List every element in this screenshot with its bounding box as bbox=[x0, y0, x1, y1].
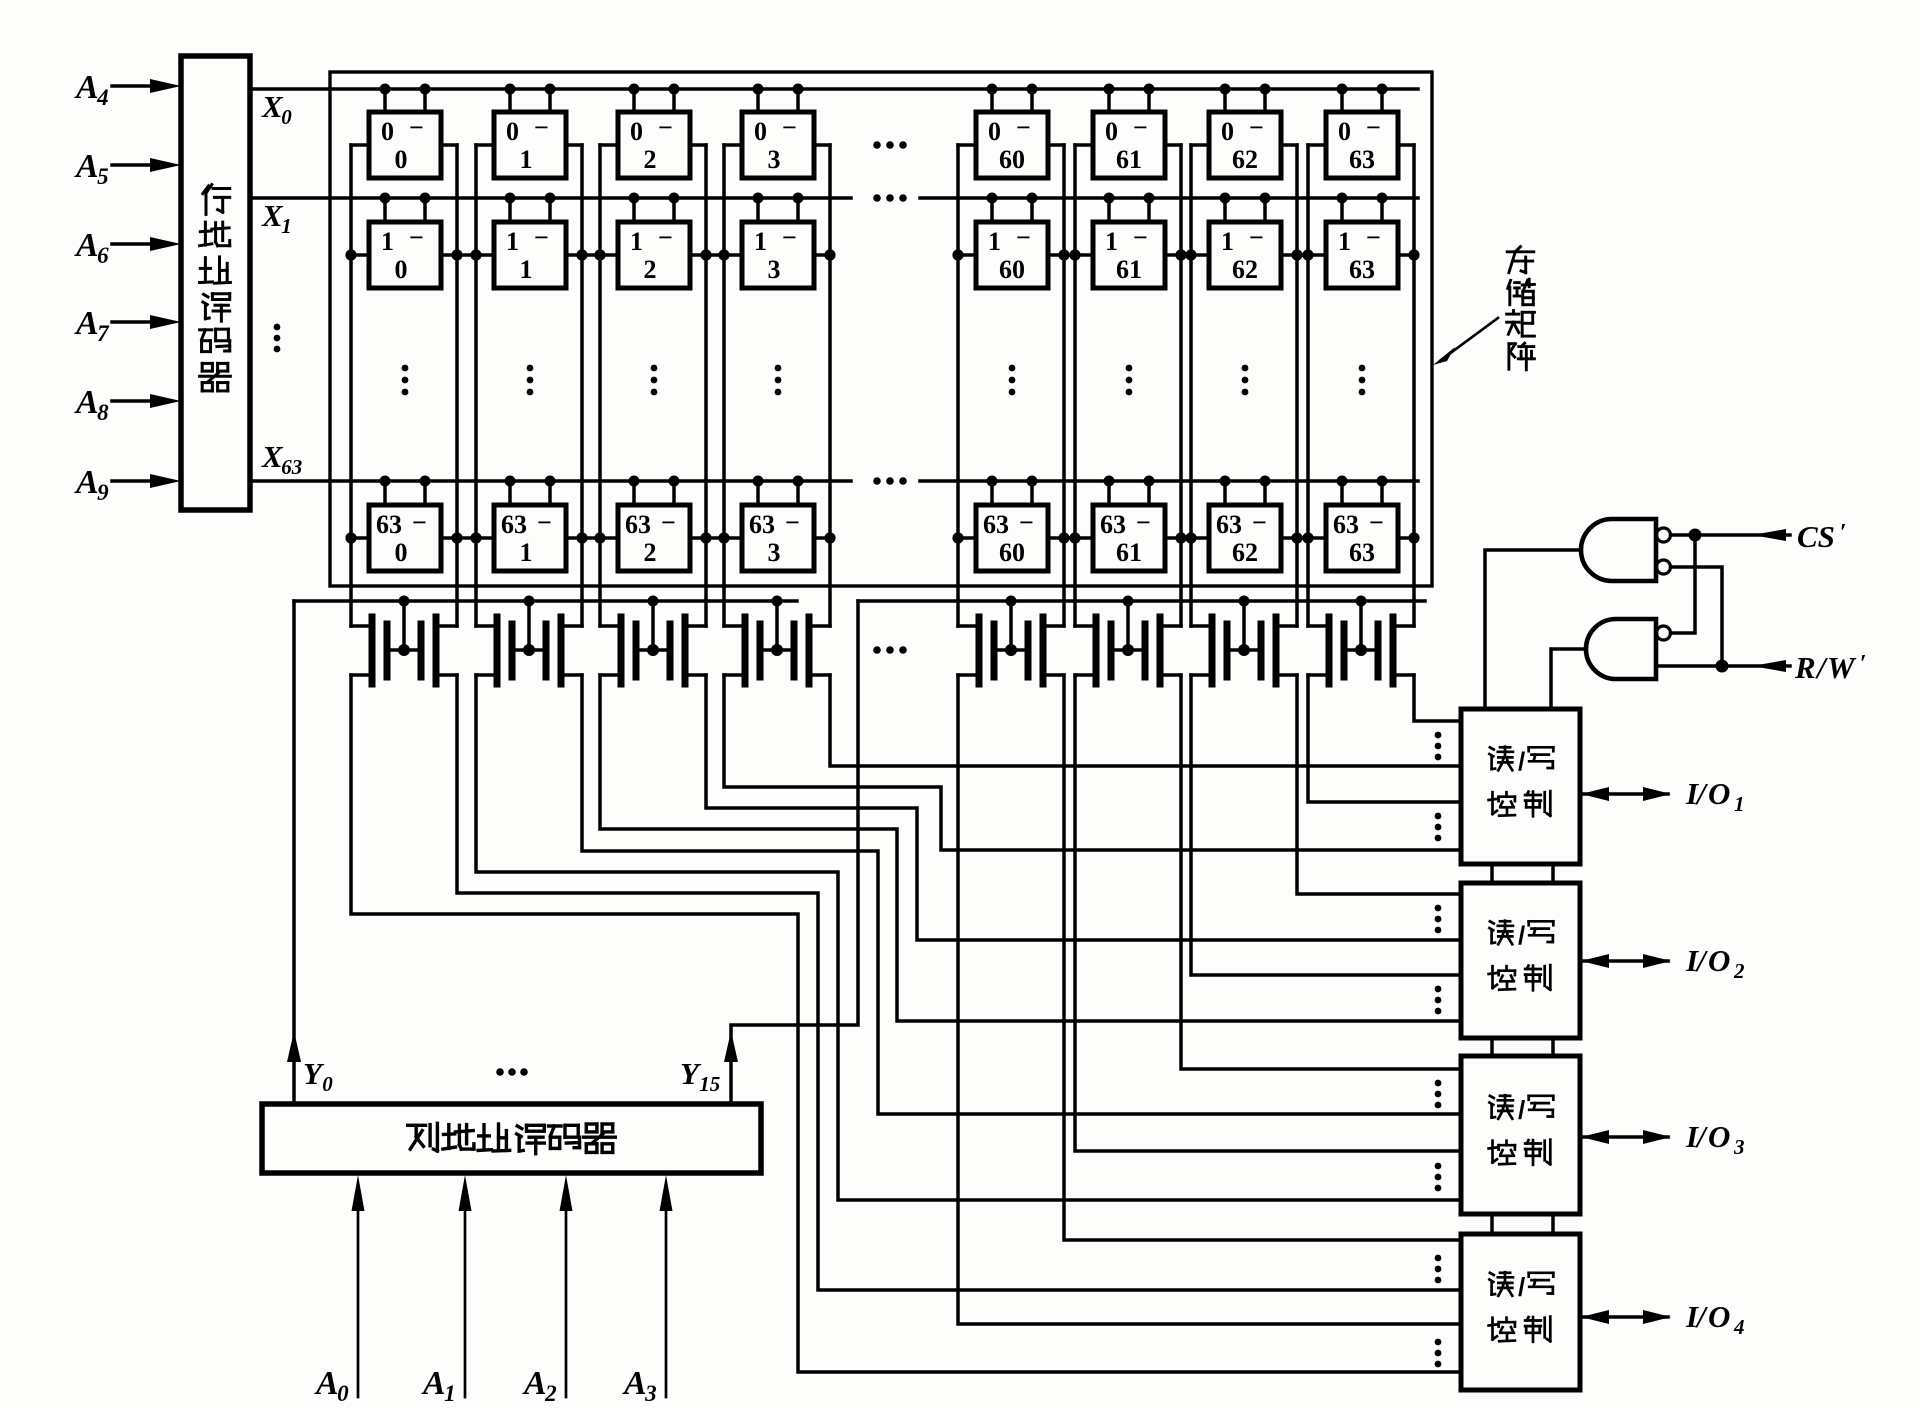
column select line Y0 riser bbox=[292, 601, 296, 1104]
horizontal ellipsis between transistor groups bbox=[873, 646, 907, 654]
word line X1 (left segment) bbox=[250, 196, 851, 200]
read/write control box 3 读/写控制 bbox=[1461, 1056, 1580, 1214]
vertical ellipsis column 1 bbox=[527, 365, 534, 396]
svg-text:63: 63 bbox=[1349, 145, 1375, 174]
svg-text:63: 63 bbox=[376, 510, 402, 539]
column select transistor pair column 60 bbox=[958, 596, 1064, 685]
wire column 62 right bit line to R/W control 2 bbox=[1297, 675, 1461, 894]
horizontal ellipsis on word line X63 bbox=[873, 477, 907, 485]
svg-text:1: 1 bbox=[506, 227, 519, 256]
svg-text:−: − bbox=[1252, 508, 1267, 537]
memory cell 63-2 bbox=[618, 476, 690, 572]
connector wires between R/W control 3 and 4 bbox=[1492, 1214, 1553, 1234]
svg-text:63: 63 bbox=[1100, 510, 1126, 539]
svg-text:−: − bbox=[409, 223, 424, 252]
horizontal ellipsis between Y0 and Y15 bbox=[496, 1068, 528, 1076]
svg-text:63: 63 bbox=[1349, 255, 1375, 284]
svg-text:1: 1 bbox=[754, 227, 767, 256]
svg-text:−: − bbox=[409, 113, 424, 142]
wire column 1 right bit line to R/W control 3 bbox=[582, 675, 1461, 1114]
I/O1 bidirectional arrow and label bbox=[1580, 776, 1745, 816]
row 63 cell interconnect line (right group) bbox=[958, 536, 1414, 540]
svg-text:/: / bbox=[1518, 747, 1525, 777]
column select transistor pair column 61 bbox=[1075, 596, 1181, 685]
svg-text:60: 60 bbox=[999, 145, 1025, 174]
svg-text:2: 2 bbox=[644, 538, 657, 567]
svg-text:2: 2 bbox=[1733, 959, 1745, 983]
connector wires between R/W control 1 and 2 bbox=[1492, 864, 1553, 883]
bit line pair column 61 bbox=[1075, 145, 1181, 626]
row 63 cell interconnect line (left group) bbox=[351, 536, 830, 540]
svg-text:63: 63 bbox=[1216, 510, 1242, 539]
svg-text:O: O bbox=[1708, 1119, 1730, 1154]
svg-text:63: 63 bbox=[625, 510, 651, 539]
vertical ellipsis column 62 bbox=[1242, 365, 1249, 396]
word line X63 (right segment) bbox=[920, 479, 1418, 483]
wire column 3 left bit line to R/W control 1 bbox=[724, 675, 1461, 850]
vertical ellipsis at R/W control input 5 bbox=[1435, 1080, 1442, 1109]
label CS' bbox=[1797, 519, 1847, 554]
svg-text:A: A bbox=[421, 1365, 446, 1402]
svg-text:−: − bbox=[1019, 508, 1034, 537]
column select transistor pair column 63 bbox=[1308, 596, 1414, 685]
Y0 arrowhead bbox=[287, 1031, 301, 1062]
svg-text:W: W bbox=[1827, 650, 1857, 685]
R/W' input wire bbox=[1656, 660, 1790, 673]
row 1 cell interconnect line (right group) bbox=[958, 253, 1414, 257]
svg-text:O: O bbox=[1708, 776, 1730, 811]
memory matrix border bbox=[330, 72, 1432, 586]
svg-text:−: − bbox=[1249, 223, 1264, 252]
column select line Y15 riser and route bbox=[731, 601, 858, 1104]
svg-text:1: 1 bbox=[520, 145, 533, 174]
vertical ellipsis column 2 bbox=[651, 365, 658, 396]
svg-text:CS: CS bbox=[1797, 519, 1835, 554]
svg-text:0: 0 bbox=[395, 538, 408, 567]
svg-text:R: R bbox=[1794, 650, 1816, 685]
svg-text:3: 3 bbox=[1733, 1135, 1745, 1159]
svg-text:−: − bbox=[1136, 508, 1151, 537]
wire column 62 left bit line to R/W control 2 bbox=[1191, 675, 1461, 975]
svg-text:0: 0 bbox=[395, 145, 408, 174]
wire column 2 right bit line to R/W control 2 bbox=[706, 675, 1461, 940]
svg-text:A: A bbox=[314, 1365, 339, 1402]
row 1 interconnect junction dots bbox=[345, 249, 1419, 260]
svg-text:3: 3 bbox=[644, 1381, 657, 1403]
vertical ellipsis column 3 bbox=[775, 365, 782, 396]
svg-text:63: 63 bbox=[281, 455, 302, 479]
svg-text:A: A bbox=[74, 384, 99, 421]
memory cell 0-3 bbox=[742, 84, 814, 179]
vertical ellipsis between X1 and X63 bbox=[274, 324, 281, 353]
input A4 label and arrow bbox=[74, 69, 181, 110]
wire column 60 right bit line to R/W control 4 bbox=[1064, 675, 1461, 1240]
input A2 label and arrow bbox=[522, 1175, 573, 1406]
svg-text:A: A bbox=[74, 464, 99, 501]
memory cell 1-1 bbox=[494, 193, 566, 289]
memory cell 0-0 bbox=[369, 84, 441, 179]
svg-text:′: ′ bbox=[1840, 520, 1847, 546]
svg-text:3: 3 bbox=[768, 145, 781, 174]
svg-text:61: 61 bbox=[1116, 255, 1142, 284]
svg-text:A: A bbox=[622, 1365, 647, 1402]
wire column 2 left bit line to R/W control 2 bbox=[600, 675, 1461, 1021]
right group gate select line bbox=[858, 599, 1425, 603]
input A6 label and arrow bbox=[74, 227, 181, 268]
bit line pair column 0 bbox=[351, 145, 457, 626]
svg-text:−: − bbox=[1369, 508, 1384, 537]
memory cell 63-61 bbox=[1093, 476, 1165, 572]
I/O4 bidirectional arrow and label bbox=[1580, 1299, 1745, 1339]
memory cell 0-1 bbox=[494, 84, 566, 179]
svg-text:0: 0 bbox=[322, 1072, 333, 1096]
memory cell 1-3 bbox=[742, 193, 814, 289]
column select transistor pair column 1 bbox=[476, 596, 582, 685]
svg-text:0: 0 bbox=[506, 117, 519, 146]
vertical ellipsis column 61 bbox=[1126, 365, 1133, 396]
label X0 bbox=[261, 89, 292, 129]
I/O3 bidirectional arrow and label bbox=[1580, 1119, 1745, 1159]
NAND gate G1 (chip select) bbox=[1581, 519, 1671, 581]
svg-text:1: 1 bbox=[520, 255, 533, 284]
svg-text:−: − bbox=[1133, 223, 1148, 252]
svg-text:3: 3 bbox=[768, 255, 781, 284]
svg-text:−: − bbox=[412, 508, 427, 537]
svg-text:0: 0 bbox=[1221, 117, 1234, 146]
svg-text:2: 2 bbox=[644, 145, 657, 174]
svg-text:−: − bbox=[658, 223, 673, 252]
svg-text:/: / bbox=[1518, 1272, 1525, 1302]
label X63 bbox=[261, 439, 302, 479]
svg-text:−: − bbox=[1366, 223, 1381, 252]
word line X63 (left segment) bbox=[250, 479, 851, 483]
memory cell 63-1 bbox=[494, 476, 566, 572]
vertical ellipsis at R/W control input 8 bbox=[1435, 1339, 1442, 1368]
memory cell 1-60 bbox=[976, 193, 1048, 289]
vertical ellipsis at R/W control input 1 bbox=[1435, 732, 1442, 761]
svg-text:0: 0 bbox=[1338, 117, 1351, 146]
svg-text:−: − bbox=[1016, 223, 1031, 252]
column address decoder box 列地址译码器 bbox=[262, 1104, 761, 1173]
svg-text:−: − bbox=[534, 223, 549, 252]
svg-text:0: 0 bbox=[1105, 117, 1118, 146]
word line X1 (right segment) bbox=[920, 196, 1418, 200]
svg-text:−: − bbox=[1016, 113, 1031, 142]
svg-text:8: 8 bbox=[97, 400, 109, 425]
svg-text:1: 1 bbox=[988, 227, 1001, 256]
column select transistor pair column 2 bbox=[600, 596, 706, 685]
wire column 61 left bit line to R/W control 3 bbox=[1075, 675, 1461, 1151]
left group gate select line bbox=[294, 599, 797, 603]
horizontal ellipsis row 0 cells bbox=[873, 141, 907, 149]
svg-text:7: 7 bbox=[97, 321, 110, 346]
label X1 bbox=[261, 198, 292, 238]
svg-text:−: − bbox=[782, 223, 797, 252]
vertical ellipsis at R/W control input 3 bbox=[1435, 905, 1442, 934]
svg-text:/: / bbox=[1518, 1095, 1525, 1125]
svg-text:1: 1 bbox=[444, 1381, 456, 1403]
svg-text:2: 2 bbox=[644, 255, 657, 284]
row 63 interconnect junction dots bbox=[345, 532, 1419, 543]
vertical ellipsis column 0 bbox=[402, 365, 409, 396]
svg-text:−: − bbox=[658, 113, 673, 142]
NAND gate G2 (read/write enable) bbox=[1586, 619, 1671, 679]
svg-text:0: 0 bbox=[281, 105, 292, 129]
vertical ellipsis column 63 bbox=[1359, 365, 1366, 396]
memory cell 1-2 bbox=[618, 193, 690, 289]
svg-text:63: 63 bbox=[749, 510, 775, 539]
svg-text:A: A bbox=[74, 148, 99, 185]
bit line pair column 2 bbox=[600, 145, 706, 626]
read/write control box 4 读/写控制 bbox=[1461, 1234, 1580, 1390]
read/write control box 2 读/写控制 bbox=[1461, 883, 1580, 1038]
read/write control box 1 读/写控制 bbox=[1461, 709, 1580, 864]
svg-text:0: 0 bbox=[395, 255, 408, 284]
label 存储矩阵 storage matrix bbox=[1507, 247, 1535, 370]
svg-text:15: 15 bbox=[699, 1072, 720, 1096]
wire column 63 right bit line to R/W control 1 bbox=[1414, 675, 1461, 721]
svg-text:−: − bbox=[1133, 113, 1148, 142]
bit line pair column 3 bbox=[724, 145, 830, 626]
svg-text:A: A bbox=[74, 69, 99, 106]
svg-text:6: 6 bbox=[97, 243, 109, 268]
svg-text:4: 4 bbox=[96, 85, 109, 110]
svg-text:0: 0 bbox=[754, 117, 767, 146]
svg-text:62: 62 bbox=[1232, 255, 1258, 284]
vertical ellipsis at R/W control input 4 bbox=[1435, 986, 1442, 1015]
svg-text:−: − bbox=[1366, 113, 1381, 142]
vertical ellipsis at R/W control input 6 bbox=[1435, 1163, 1442, 1192]
svg-text:O: O bbox=[1708, 943, 1730, 978]
vertical ellipsis at R/W control input 2 bbox=[1435, 813, 1442, 842]
memory cell 1-63 bbox=[1326, 193, 1398, 289]
svg-text:/: / bbox=[1518, 921, 1525, 951]
svg-text:1: 1 bbox=[1221, 227, 1234, 256]
wire column 0 left bit line to R/W control 4 bbox=[351, 675, 1461, 1372]
bit line pair column 62 bbox=[1191, 145, 1297, 626]
column select transistor pair column 62 bbox=[1191, 596, 1297, 685]
svg-text:62: 62 bbox=[1232, 145, 1258, 174]
wire CS' to G2 input bubble bbox=[1671, 535, 1696, 633]
svg-text:3: 3 bbox=[768, 538, 781, 567]
svg-text:1: 1 bbox=[1105, 227, 1118, 256]
wire G2 output to R/W control boxes bbox=[1551, 649, 1586, 709]
svg-text:A: A bbox=[74, 227, 99, 264]
memory cell 1-61 bbox=[1093, 193, 1165, 289]
memory cell 0-61 bbox=[1093, 84, 1165, 179]
svg-text:A: A bbox=[74, 305, 99, 342]
memory cell 63-60 bbox=[976, 476, 1048, 572]
input A7 label and arrow bbox=[74, 305, 181, 346]
svg-text:9: 9 bbox=[97, 480, 109, 505]
svg-text:60: 60 bbox=[999, 255, 1025, 284]
input A3 label and arrow bbox=[622, 1175, 673, 1406]
svg-text:−: − bbox=[785, 508, 800, 537]
CS' input wire bbox=[1671, 529, 1791, 542]
svg-text:1: 1 bbox=[281, 214, 292, 238]
connector wires between R/W control 2 and 3 bbox=[1492, 1038, 1553, 1056]
memory cell 63-63 bbox=[1326, 476, 1398, 572]
svg-text:4: 4 bbox=[1733, 1315, 1745, 1339]
svg-text:2: 2 bbox=[544, 1381, 557, 1403]
svg-text:1: 1 bbox=[1338, 227, 1351, 256]
input A8 label and arrow bbox=[74, 384, 181, 425]
svg-text:1: 1 bbox=[381, 227, 394, 256]
svg-text:−: − bbox=[537, 508, 552, 537]
memory cell 63-62 bbox=[1209, 476, 1281, 572]
wire column 63 left bit line to R/W control 1 bbox=[1308, 675, 1461, 802]
bit line pair column 1 bbox=[476, 145, 582, 626]
svg-text:−: − bbox=[534, 113, 549, 142]
input A5 label and arrow bbox=[74, 148, 181, 189]
svg-text:5: 5 bbox=[97, 164, 109, 189]
wire column 3 right bit line to R/W control 1 bbox=[830, 675, 1461, 766]
vertical ellipsis column 60 bbox=[1009, 365, 1016, 396]
arrow pointing to storage matrix border bbox=[1433, 318, 1498, 365]
memory cell 0-62 bbox=[1209, 84, 1281, 179]
svg-text:0: 0 bbox=[988, 117, 1001, 146]
svg-text:0: 0 bbox=[630, 117, 643, 146]
svg-text:1: 1 bbox=[1734, 792, 1745, 816]
row 1 cell interconnect line (left group) bbox=[351, 253, 830, 257]
Y15 arrowhead bbox=[724, 1031, 738, 1062]
wire R/W' to G1 lower input bubble bbox=[1671, 567, 1723, 666]
svg-text:60: 60 bbox=[999, 538, 1025, 567]
wire G1 output to R/W control boxes bbox=[1485, 550, 1581, 709]
svg-text:O: O bbox=[1708, 1299, 1730, 1334]
svg-text:0: 0 bbox=[381, 117, 394, 146]
wire column 61 right bit line to R/W control 3 bbox=[1181, 675, 1461, 1069]
bit line pair column 60 bbox=[958, 145, 1064, 626]
svg-text:63: 63 bbox=[1333, 510, 1359, 539]
svg-text:0: 0 bbox=[337, 1381, 349, 1403]
column select transistor pair column 0 bbox=[351, 596, 457, 685]
svg-text:′: ′ bbox=[1860, 651, 1867, 677]
memory cell 63-3 bbox=[742, 476, 814, 572]
svg-text:A: A bbox=[522, 1365, 547, 1402]
memory cell 0-60 bbox=[976, 84, 1048, 179]
label R/W' bbox=[1794, 650, 1867, 685]
memory cell 0-2 bbox=[618, 84, 690, 179]
column select transistor pair column 3 bbox=[724, 596, 830, 685]
wire column 60 left bit line to R/W control 4 bbox=[958, 675, 1461, 1324]
svg-text:1: 1 bbox=[520, 538, 533, 567]
label Y0 bbox=[303, 1056, 333, 1096]
svg-text:62: 62 bbox=[1232, 538, 1258, 567]
svg-text:1: 1 bbox=[630, 227, 643, 256]
bit line pair column 63 bbox=[1308, 145, 1414, 626]
wire column 0 right bit line to R/W control 4 bbox=[457, 675, 1461, 1290]
svg-text:63: 63 bbox=[1349, 538, 1375, 567]
input A0 label and arrow bbox=[314, 1175, 365, 1406]
svg-text:63: 63 bbox=[501, 510, 527, 539]
vertical ellipsis at R/W control input 7 bbox=[1435, 1255, 1442, 1284]
horizontal ellipsis on word line X1 bbox=[873, 194, 907, 202]
svg-text:63: 63 bbox=[983, 510, 1009, 539]
svg-text:−: − bbox=[782, 113, 797, 142]
input A9 label and arrow bbox=[74, 464, 181, 505]
svg-text:−: − bbox=[661, 508, 676, 537]
input A1 label and arrow bbox=[421, 1175, 472, 1406]
memory cell 63-0 bbox=[369, 476, 441, 572]
svg-text:61: 61 bbox=[1116, 145, 1142, 174]
I/O2 bidirectional arrow and label bbox=[1580, 943, 1745, 983]
wire column 1 left bit line to R/W control 3 bbox=[476, 675, 1461, 1200]
memory cell 0-63 bbox=[1326, 84, 1398, 179]
label Y15 bbox=[680, 1056, 720, 1096]
svg-text:61: 61 bbox=[1116, 538, 1142, 567]
memory cell 1-0 bbox=[369, 193, 441, 289]
word line X0 bbox=[250, 87, 1418, 91]
svg-text:−: − bbox=[1249, 113, 1264, 142]
memory cell 1-62 bbox=[1209, 193, 1281, 289]
row address decoder box 行地址译码器 bbox=[181, 56, 250, 510]
